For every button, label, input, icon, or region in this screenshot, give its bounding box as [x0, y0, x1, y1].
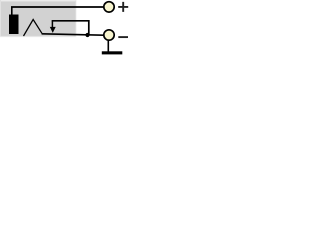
sensing face (black bar)	[9, 15, 19, 35]
ground lead	[107, 40, 109, 52]
label -	[118, 36, 128, 38]
sensor body (shaded block)	[0, 0, 76, 37]
wire: output branch	[52, 21, 89, 35]
actuator target (cam bump)	[24, 20, 43, 37]
terminal circle +	[104, 2, 114, 12]
wire: supply stub from top rail into sensing face	[11, 7, 13, 15]
label +	[118, 2, 128, 12]
wire: bottom rail to - terminal	[42, 34, 104, 35]
junction dot	[85, 33, 89, 37]
actuation arrow shaft	[51, 20, 53, 27]
wire: top rail to + terminal	[11, 6, 103, 8]
terminal circle -	[104, 30, 114, 40]
ground bar	[102, 51, 123, 54]
actuation arrow head	[50, 27, 56, 33]
